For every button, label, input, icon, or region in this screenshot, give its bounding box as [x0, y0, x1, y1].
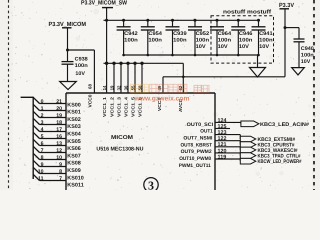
svg-text:3: 3 [148, 179, 154, 190]
svg-text:13: 13 [56, 141, 62, 147]
svg-text:KS00: KS00 [67, 102, 81, 108]
svg-text:C942: C942 [124, 31, 138, 37]
svg-text:10V: 10V [218, 44, 229, 50]
svg-text:100n: 100n [124, 38, 138, 44]
svg-text:68: 68 [87, 84, 92, 89]
svg-text:32: 32 [117, 85, 122, 90]
svg-text:1: 1 [41, 106, 44, 112]
svg-text:10V: 10V [259, 44, 270, 50]
svg-text:KBC3_LED_ACIN#: KBC3_LED_ACIN# [260, 122, 309, 128]
svg-text:100n: 100n [259, 38, 273, 44]
svg-text:0: 0 [41, 99, 44, 105]
svg-text:C941: C941 [259, 31, 273, 37]
svg-text:KS09: KS09 [67, 168, 81, 174]
svg-text:KS04: KS04 [67, 132, 81, 138]
svg-text:21: 21 [56, 99, 62, 105]
svg-text:KS07: KS07 [67, 153, 81, 159]
svg-text:8: 8 [41, 155, 44, 161]
svg-text:OUT0_SCI: OUT0_SCI [187, 122, 214, 128]
svg-text:KS05: KS05 [67, 139, 81, 145]
svg-text:3: 3 [41, 120, 44, 126]
svg-text:100n: 100n [239, 38, 253, 44]
svg-text:10: 10 [56, 155, 62, 161]
svg-text:C954: C954 [148, 31, 162, 37]
svg-text:10: 10 [38, 169, 44, 175]
svg-text:100n: 100n [218, 38, 232, 44]
svg-text:OUT8_KBRST: OUT8_KBRST [181, 142, 213, 148]
svg-text:6: 6 [41, 141, 44, 147]
svg-text:KS03: KS03 [67, 124, 81, 130]
svg-text:C938: C938 [75, 56, 88, 62]
svg-text:OUT10_PWM0: OUT10_PWM0 [179, 156, 211, 162]
svg-text:KS08: KS08 [67, 161, 81, 167]
svg-text:18: 18 [56, 120, 62, 126]
svg-text:100n: 100n [301, 53, 314, 59]
svg-text:P3.3V_MICOM: P3.3V_MICOM [49, 21, 87, 28]
svg-text:17: 17 [56, 127, 62, 133]
svg-text:KS010: KS010 [67, 175, 84, 181]
svg-text:www.gzweix.com: www.gzweix.com [134, 95, 190, 102]
svg-text:19: 19 [56, 113, 62, 119]
svg-text:100n: 100n [196, 38, 210, 44]
svg-text:U516 MEC1308-NU: U516 MEC1308-NU [96, 146, 143, 152]
svg-text:7: 7 [41, 148, 44, 154]
svg-text:C946: C946 [239, 31, 253, 37]
svg-text:PWM1_OUT11: PWM1_OUT11 [179, 163, 211, 169]
svg-text:VCC1_1: VCC1_1 [102, 96, 107, 117]
svg-text:VCC1_2: VCC1_2 [110, 96, 115, 117]
svg-text:9: 9 [59, 162, 62, 168]
svg-text:36: 36 [124, 85, 129, 90]
svg-text:19: 19 [110, 85, 115, 90]
svg-text:7: 7 [59, 176, 62, 182]
svg-text:P3.3V: P3.3V [279, 2, 294, 9]
svg-text:VCC1_3: VCC1_3 [117, 96, 122, 117]
svg-text:100n: 100n [75, 63, 88, 69]
svg-text:OUT9_PWM2: OUT9_PWM2 [181, 149, 212, 155]
svg-text:10V: 10V [196, 44, 207, 50]
svg-text:OUT7_NSMI: OUT7_NSMI [183, 135, 213, 141]
svg-text:C940: C940 [301, 46, 314, 52]
svg-text:C952: C952 [196, 31, 210, 37]
svg-text:KS011: KS011 [67, 183, 84, 189]
svg-text:C939: C939 [173, 31, 187, 37]
svg-text:4: 4 [41, 127, 44, 133]
svg-text:12: 12 [56, 148, 62, 154]
svg-text:8: 8 [59, 169, 62, 175]
svg-text:5: 5 [41, 134, 44, 140]
svg-text:14: 14 [102, 85, 107, 90]
svg-text:100n: 100n [173, 38, 187, 44]
svg-text:10V: 10V [239, 44, 250, 50]
svg-text:P3.3V_MICOM_SW: P3.3V_MICOM_SW [81, 0, 127, 7]
svg-text:100n: 100n [148, 38, 162, 44]
svg-text:2: 2 [41, 113, 44, 119]
svg-text:MICOM: MICOM [111, 135, 133, 141]
svg-text:KBCW_LED_POWER#: KBCW_LED_POWER# [258, 159, 302, 165]
svg-text:10V: 10V [75, 71, 85, 77]
svg-text:KS01: KS01 [67, 110, 81, 116]
svg-text:20: 20 [56, 106, 62, 112]
svg-text:OUT1: OUT1 [200, 129, 213, 135]
svg-text:16: 16 [56, 134, 62, 140]
svg-text:KS02: KS02 [67, 117, 81, 123]
svg-text:VCC1_4: VCC1_4 [124, 96, 129, 117]
svg-text:11: 11 [38, 176, 44, 182]
svg-text:KS06: KS06 [67, 146, 81, 152]
svg-text:nostuff mostuff: nostuff mostuff [223, 9, 271, 16]
svg-text:9: 9 [41, 162, 44, 168]
svg-text:VCC0: VCC0 [87, 94, 92, 108]
svg-text:10V: 10V [301, 59, 311, 65]
svg-text:C964: C964 [218, 31, 232, 37]
